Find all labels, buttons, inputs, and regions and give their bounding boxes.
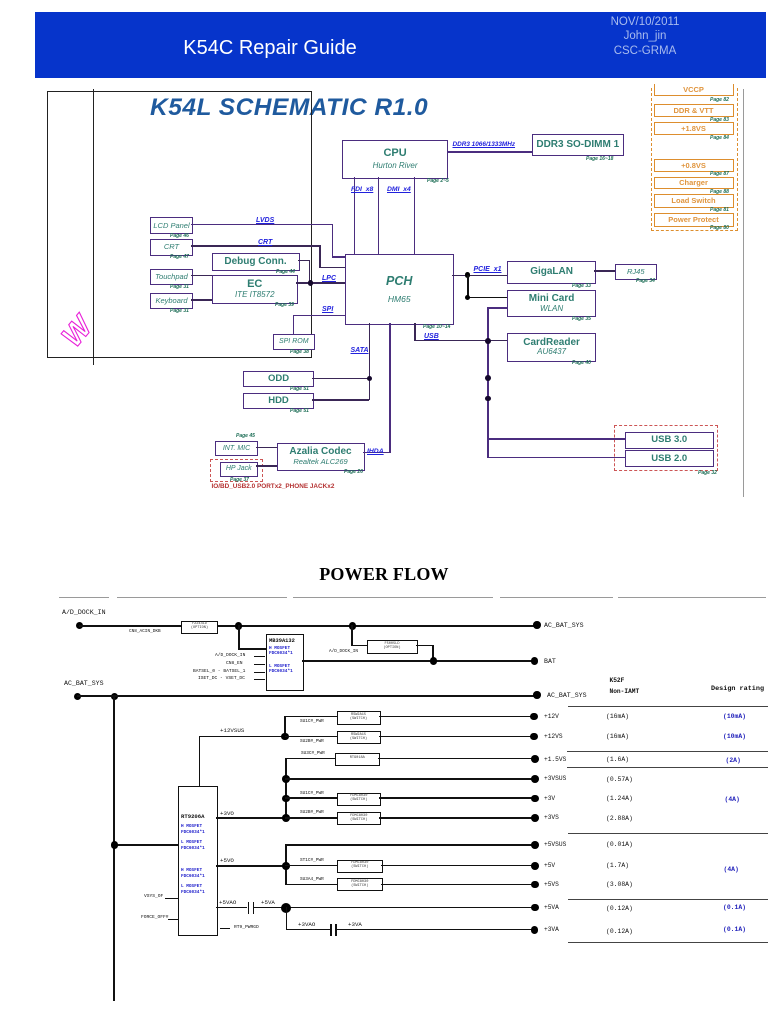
fuse F2	[367, 640, 418, 654]
wire Touchpad-EC	[191, 275, 212, 276]
table header K52F	[610, 677, 625, 684]
table lines	[568, 706, 768, 707]
inner vertical black line	[93, 89, 94, 365]
wire +12VS row	[285, 736, 337, 738]
node AC_BAT_SYS top	[533, 621, 541, 629]
wire LVDS	[191, 224, 333, 225]
wire GigaLAN-RJ45	[594, 270, 615, 271]
black frame rectangle	[47, 91, 312, 358]
regulator RT9206A	[178, 786, 218, 936]
wire +3VA row	[286, 907, 288, 931]
junction LPC	[308, 280, 314, 286]
junction dock/bat fuse	[349, 622, 357, 630]
POWER FLOW title	[284, 564, 484, 585]
wire +3VO feed	[216, 817, 286, 819]
wire Keyboard-EC	[191, 299, 212, 300]
GigaLAN	[507, 261, 596, 285]
node dots on trunk	[485, 375, 491, 381]
wire +3VSUS row	[285, 778, 536, 780]
wire USB from PCH	[414, 323, 416, 341]
wire CRT	[191, 245, 321, 247]
wire PCIE to MiniCard	[467, 275, 469, 298]
node BAT	[531, 657, 539, 665]
EC ITE IT8572	[212, 275, 299, 304]
node A/D_DOCK_IN	[62, 609, 106, 616]
charger block MB39A132	[266, 634, 304, 691]
wire +5VO feed	[216, 865, 286, 867]
svg-text:W: W	[56, 308, 101, 353]
header bar	[35, 12, 766, 79]
header title	[120, 37, 420, 60]
wire FDI	[354, 177, 355, 254]
HP Jack red dashed box	[210, 459, 263, 482]
main left trunk	[113, 695, 115, 1001]
DDR3 SO-DIMM 1	[532, 134, 625, 156]
red caption	[212, 483, 335, 490]
wire AC_BAT_SYS rail2	[77, 695, 537, 697]
wire +12VSUS	[199, 736, 201, 787]
node PCIE junction	[465, 272, 471, 278]
HP Jack	[220, 462, 259, 477]
wire to USB 2.0	[487, 457, 625, 458]
header right text	[560, 15, 730, 60]
wire IHDA	[389, 323, 391, 453]
vertical 5V group	[285, 844, 287, 885]
wire INT.MIC to Azalia	[256, 447, 277, 448]
junction dock/charger	[235, 622, 243, 630]
wire +5VA row	[216, 907, 247, 909]
SPI ROM	[273, 334, 316, 351]
Mini Card	[507, 290, 596, 317]
wire +3V row	[285, 797, 337, 799]
Power Protect	[654, 213, 734, 227]
table values	[606, 713, 629, 720]
ODD	[243, 371, 314, 387]
wire SPI	[293, 315, 346, 316]
USB 2.0	[625, 450, 714, 467]
magenta stamp W	[50, 300, 110, 360]
HDD	[243, 393, 314, 410]
wire to MB39A132	[238, 625, 240, 649]
wire +1.5VS row	[285, 758, 335, 760]
wire +3VS row	[285, 817, 337, 819]
RT9206A pins	[144, 894, 163, 899]
Azalia Codec	[277, 443, 365, 471]
design ratings	[723, 713, 746, 720]
LCD Panel	[150, 217, 193, 234]
Touchpad	[150, 269, 193, 286]
capacitor 3VA	[330, 924, 332, 936]
USB red dashed group	[614, 425, 718, 471]
Load Switch	[654, 194, 734, 208]
vertical 3V group	[285, 758, 287, 819]
junction USB/CardReader	[485, 338, 491, 344]
wire +12V row	[285, 716, 337, 718]
RJ45	[615, 264, 658, 280]
vertical 12V group	[284, 716, 286, 737]
fuse F1	[129, 629, 161, 634]
wire LPC	[296, 282, 345, 284]
INT. MIC	[236, 433, 255, 439]
Keyboard	[150, 293, 193, 310]
schematic title	[150, 94, 435, 122]
CPU box	[342, 140, 449, 179]
orange dashed container	[651, 88, 739, 231]
+1.8VS	[654, 122, 734, 136]
capacitor 5VA	[248, 902, 250, 914]
wire +5VSUS row	[285, 844, 536, 846]
CRT box	[150, 239, 193, 256]
charger pin labels	[215, 653, 245, 658]
+0.8VS	[654, 159, 734, 173]
top gray rules	[59, 597, 109, 598]
wire USB vertical trunk	[487, 307, 489, 458]
Debug Conn.	[212, 253, 300, 271]
wire HP Jack to Azalia	[256, 465, 277, 466]
VCCP (top cropped)	[654, 84, 734, 96]
right gray rule	[743, 89, 744, 497]
wire dock rail	[79, 625, 537, 627]
wire DMI	[414, 177, 415, 254]
Charger	[654, 177, 734, 190]
node AC_BAT_SYS left2	[64, 680, 104, 687]
wire +5VS row	[285, 884, 337, 886]
wire DDR3	[447, 151, 532, 152]
DDR & VTT	[654, 104, 734, 117]
junction SATA/ODD	[367, 376, 373, 382]
PCH box	[345, 254, 454, 326]
wire PCIE x1	[452, 275, 508, 277]
wire trunk to RT9206A	[113, 844, 178, 846]
wire F2 to BAT	[416, 645, 434, 647]
USB 3.0	[625, 432, 714, 449]
CardReader	[507, 333, 596, 362]
wire +5V row	[285, 865, 337, 867]
wire to USB 3.0	[487, 438, 625, 439]
wire SATA	[369, 323, 371, 400]
wire Debug to LPC	[298, 260, 310, 261]
wire to fuse F2	[351, 625, 353, 646]
wire BAT rail	[302, 660, 535, 662]
